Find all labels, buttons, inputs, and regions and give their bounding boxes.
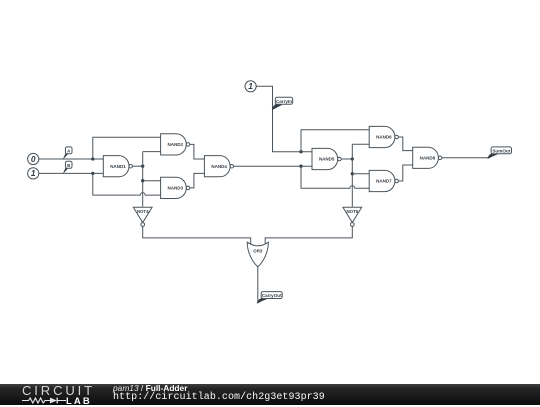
label flag B — [63, 161, 72, 174]
wire NAND5 out vertical (to NAND6 in2, NAND7 in1, NOT5) — [351, 144, 353, 207]
junction NAND7 in1 tap — [351, 172, 354, 175]
CircuitLab logo resistor-diode glyph — [21, 396, 93, 405]
wire to NAND6 in2 — [352, 143, 369, 145]
svg-text:NAND8: NAND8 — [420, 156, 436, 161]
svg-text:SumOut: SumOut — [492, 149, 510, 154]
wire to NAND3 in1 — [143, 180, 161, 182]
svg-text:NAND4: NAND4 — [211, 164, 227, 169]
footer bar — [0, 384, 540, 405]
wire NOT5 out to OR3 in2 — [265, 226, 352, 244]
wire A up-and-over to NAND2 in1 — [93, 137, 161, 159]
svg-text:B: B — [67, 163, 70, 168]
terminal source "1" (input B) — [28, 168, 39, 179]
OR gate OR3 (pointing down) — [247, 242, 268, 267]
footer title line: pam13 / Full-Adder — [113, 383, 187, 393]
wire CarryIn down to NAND5 in1 — [256, 86, 312, 152]
svg-text:CarryOut: CarryOut — [262, 293, 282, 298]
NAND gate NAND5 — [312, 148, 341, 169]
svg-text:NOT5: NOT5 — [346, 209, 358, 214]
wire NAND1 out vertical (to NAND2 in2, NAND3 in1, NOT4) — [142, 152, 144, 207]
NAND gate NAND8 — [413, 147, 442, 168]
junction NAND1 out — [141, 165, 144, 168]
wire to NAND2 in2 — [143, 151, 161, 153]
wire NAND3 out to NAND4 in2 — [190, 173, 205, 188]
svg-text:NAND2: NAND2 — [168, 142, 184, 147]
NAND gate NAND6 — [369, 126, 398, 147]
junction B split — [91, 172, 94, 175]
svg-text:CarryIn: CarryIn — [276, 99, 292, 104]
junction X split — [299, 165, 302, 168]
wire A: source 0 to NAND1 in1 — [39, 158, 104, 160]
NAND gate NAND7 — [369, 170, 398, 191]
label flag CarryIn — [272, 97, 293, 110]
footer url line — [113, 392, 325, 403]
NOT gate NOT5 — [343, 207, 362, 226]
svg-text:NAND7: NAND7 — [376, 179, 392, 184]
svg-text:NAND1: NAND1 — [110, 164, 126, 169]
wire B: source 1 to NAND1 in2 — [39, 172, 104, 174]
wire NOT4 out to OR3 in1 — [143, 226, 251, 244]
wire B down-and-under to NAND3 in2 (hop over NOT4 feed) — [93, 173, 161, 195]
wire NAND1 out to split — [133, 165, 143, 167]
svg-text:OR3: OR3 — [253, 249, 263, 254]
svg-text:0: 0 — [31, 154, 36, 164]
svg-text:NAND6: NAND6 — [376, 135, 392, 140]
NAND gate NAND4 — [204, 156, 233, 177]
svg-text:1: 1 — [31, 168, 36, 178]
wire NAND7 out to NAND8 in2 — [398, 165, 412, 181]
terminal source "0" (input A) — [28, 153, 39, 164]
svg-text:1: 1 — [248, 81, 253, 91]
label flag A — [63, 147, 72, 160]
svg-text:NOT4: NOT4 — [137, 209, 149, 214]
junction NAND5 out — [351, 157, 354, 160]
wire NAND8 out (Sum) — [442, 157, 488, 159]
wire NAND4 out (X) to NAND5 in2 — [234, 165, 312, 167]
wire NAND2 out to NAND4 in1 — [190, 144, 205, 159]
wire to NAND7 in1 — [352, 173, 369, 175]
terminal source "1" (CarryIn) — [245, 81, 256, 92]
label flag CarryOut — [257, 292, 282, 304]
wire X down-and-under to NAND7 in2 (hop over NOT5 feed) — [301, 166, 369, 188]
NOT gate NOT4 — [133, 207, 152, 226]
CircuitLab logo wordmark LAB — [66, 396, 92, 407]
svg-text:NAND5: NAND5 — [319, 157, 335, 162]
svg-text:NAND3: NAND3 — [168, 186, 184, 191]
NAND gate NAND2 — [161, 134, 190, 155]
wire NAND6 out to NAND8 in1 — [398, 137, 412, 151]
CircuitLab logo wordmark CIRCUIT — [22, 383, 95, 398]
wire NAND5 out to split — [341, 158, 352, 160]
NAND gate NAND1 — [103, 156, 132, 177]
junction NAND3 in1 tap — [141, 179, 144, 182]
wire OR3 out (CarryOut) — [257, 267, 259, 303]
junction A split — [91, 157, 94, 160]
wire CarryIn up-and-over to NAND6 in1 — [301, 130, 369, 152]
label flag SumOut — [488, 147, 512, 159]
NAND gate NAND3 — [161, 177, 190, 198]
junction CarryIn split — [299, 150, 302, 153]
